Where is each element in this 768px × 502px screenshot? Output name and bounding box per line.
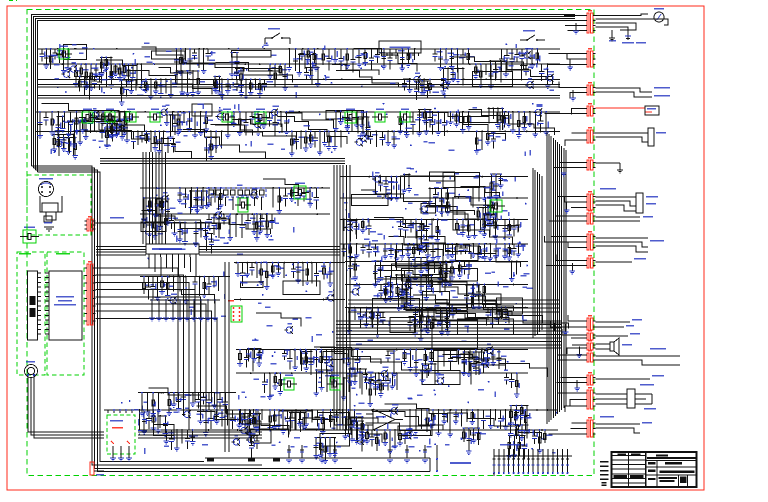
transistor Q23	[374, 176, 380, 182]
wire W13	[254, 79, 256, 90]
transformer secondary wiring	[40, 196, 62, 212]
wire net N97	[166, 276, 187, 278]
wire loop W118	[471, 296, 485, 308]
wire W199	[356, 244, 358, 255]
wire run W191	[148, 388, 200, 402]
bottom label	[450, 462, 471, 464]
wire net N45	[340, 176, 528, 178]
wire loop W283	[392, 264, 447, 278]
capacitor C58	[399, 220, 401, 227]
resistor R336	[324, 438, 326, 461]
resistor R24	[250, 79, 252, 92]
resistor R173	[216, 410, 218, 421]
resistor R121	[462, 220, 464, 233]
wire W217	[429, 188, 431, 201]
wire net N23	[89, 111, 105, 113]
resistor R235	[517, 244, 519, 254]
wire W77	[159, 214, 161, 226]
resistor R109	[259, 214, 261, 231]
wire W211	[425, 276, 427, 298]
resistor R322	[348, 378, 350, 392]
wire loop W278	[390, 318, 414, 333]
wire run W114	[378, 271, 429, 285]
capacitor C61	[426, 220, 428, 227]
transistor Q37	[357, 438, 363, 444]
resistor R317	[161, 198, 163, 211]
resistor R233	[504, 244, 506, 256]
bus bottom run	[32, 166, 263, 465]
resistor R276	[197, 71, 199, 92]
wire net N40	[140, 213, 330, 215]
wire W120	[269, 373, 271, 396]
wire W181	[173, 277, 175, 292]
wire net N141	[78, 75, 101, 77]
wire W202	[437, 244, 439, 257]
resistor R43	[445, 49, 447, 60]
capacitor C49	[241, 214, 243, 225]
capacitor C115	[224, 393, 226, 402]
wire net N165	[143, 197, 163, 199]
wire net N125	[439, 270, 452, 272]
wire net N89	[361, 429, 379, 431]
resistor R195	[455, 410, 457, 421]
connector J12	[587, 258, 589, 268]
wire W153	[394, 430, 396, 446]
capacitor C204	[576, 380, 578, 388]
resistor R250	[421, 230, 423, 246]
board outline dashed frame	[27, 10, 594, 476]
wire run W136	[461, 354, 506, 365]
wire net N104	[234, 299, 345, 301]
capacitor C185	[526, 406, 528, 416]
resistor R9	[110, 64, 112, 85]
capacitor C130	[374, 244, 376, 249]
resistor R77	[305, 131, 307, 148]
capacitor C3	[58, 49, 60, 55]
wire net N58	[348, 307, 380, 309]
resistor R169	[165, 430, 167, 441]
resistor R327	[375, 381, 377, 396]
wire W82	[265, 214, 267, 229]
resistor R261	[310, 54, 312, 75]
connector feed wires	[548, 53, 586, 55]
capacitor C47	[170, 214, 172, 220]
wire W104	[348, 308, 350, 331]
capacitor C6	[207, 49, 209, 54]
wire W231	[447, 68, 449, 82]
resistor R273	[231, 53, 233, 74]
filter K13	[284, 378, 294, 390]
wire W257	[468, 352, 470, 373]
resistor R306	[205, 222, 207, 236]
stray dash top-left	[9, 0, 17, 2]
resistor R204	[203, 277, 205, 295]
resistor R289	[62, 116, 64, 128]
wire W2	[105, 64, 107, 87]
resistor R216	[277, 263, 279, 274]
resistor R255	[447, 312, 449, 332]
transistor Q29	[437, 378, 443, 384]
connector feed wires	[552, 236, 587, 238]
wire W212	[398, 295, 400, 308]
wire loop W36	[473, 71, 513, 86]
resistor R6	[85, 64, 87, 86]
capacitor C148	[427, 81, 429, 88]
capacitor C180	[256, 436, 258, 442]
wire loop W175	[320, 434, 349, 446]
wire W132	[486, 350, 488, 364]
resistor R187	[366, 430, 368, 441]
wire W271	[402, 275, 404, 292]
resistor R67	[194, 112, 196, 135]
capacitor C80	[366, 373, 368, 380]
wire W7	[165, 79, 167, 93]
wire W241	[72, 134, 74, 156]
resistor R112	[309, 188, 311, 204]
key switch S5	[179, 300, 181, 318]
resistor R106	[220, 188, 222, 205]
wire W237	[192, 71, 194, 93]
capacitor C103	[483, 410, 485, 418]
resistor R220	[329, 263, 331, 284]
wire net N72	[342, 349, 359, 351]
resistor R165	[125, 410, 127, 421]
resistor R191	[399, 430, 401, 443]
resistor R234	[508, 244, 510, 257]
connector J16	[587, 353, 589, 362]
wire W147	[244, 410, 246, 429]
wire loop W287	[396, 250, 443, 268]
resistor R341	[356, 421, 358, 443]
wire W16	[417, 79, 419, 92]
resistor R101	[154, 214, 156, 236]
resistor R254	[441, 312, 443, 332]
wire net N92	[449, 409, 485, 411]
resistor R304	[206, 191, 208, 205]
wire net N140	[235, 68, 243, 70]
resistor R60	[124, 112, 126, 131]
antenna box feed stubs	[112, 446, 114, 458]
wire net N188	[408, 316, 433, 318]
resistor R277	[129, 112, 131, 123]
capacitor C129	[368, 244, 370, 250]
wire net N5	[75, 63, 113, 65]
resistor R13	[128, 64, 130, 81]
wire W244	[492, 108, 494, 119]
wire net N150	[57, 115, 65, 117]
resistor R286	[57, 138, 59, 148]
capacitor C70	[452, 308, 454, 312]
wire W83	[272, 188, 274, 208]
connector J18	[587, 390, 589, 409]
capacitor C91	[148, 410, 150, 418]
resistor R292	[501, 108, 503, 130]
wire net N116	[403, 173, 411, 175]
resistor R10	[115, 64, 117, 74]
resistor R162	[516, 373, 518, 394]
wire net N15	[417, 78, 432, 80]
speaker SP1	[596, 343, 611, 345]
capacitor C29	[109, 112, 111, 119]
transistor Q5	[547, 75, 553, 81]
connector J5	[587, 85, 589, 95]
resistor R30	[295, 49, 297, 71]
resistor R129	[389, 285, 391, 299]
wire W221	[311, 67, 313, 84]
resistor R137	[473, 285, 475, 308]
wire loop W76	[84, 119, 113, 131]
resistor R186	[361, 430, 363, 452]
capacitor C73	[245, 350, 247, 358]
capacitor C66	[377, 308, 379, 316]
resistor R31	[307, 49, 309, 60]
capacitor C39	[381, 131, 383, 137]
resistor R50	[531, 49, 533, 65]
wire run W208	[416, 236, 521, 267]
wire W90	[349, 220, 351, 242]
resistor R5	[80, 64, 82, 78]
resistor R353	[521, 406, 523, 416]
up down keys wiring	[596, 423, 641, 425]
capacitor C8	[264, 79, 266, 83]
resistor R361	[425, 317, 427, 330]
display module U-LCD	[49, 271, 82, 340]
resistor R338	[516, 425, 518, 439]
resistor R295	[210, 138, 212, 157]
wire net N144	[118, 111, 132, 113]
connector J15	[587, 343, 589, 350]
wire W270	[396, 275, 398, 285]
resistor R34	[334, 49, 336, 60]
wire net N123	[416, 229, 428, 231]
capacitor C78	[326, 350, 328, 360]
transistor Q21	[346, 224, 352, 230]
resistor R313	[167, 199, 169, 222]
resistor R133	[427, 308, 429, 331]
wire net N187	[344, 416, 364, 418]
wire run W22	[216, 63, 293, 83]
resistor R217	[297, 263, 299, 280]
resistor R172	[205, 410, 207, 433]
capacitor C164	[210, 234, 212, 243]
capacitor C15	[389, 49, 391, 58]
wire W141	[139, 410, 141, 431]
capacitor C74	[264, 373, 266, 382]
wire net N11	[269, 63, 287, 65]
wire W245	[497, 108, 499, 124]
capacitor C158	[58, 134, 60, 144]
capacitor C177	[475, 363, 477, 368]
resistor R15	[145, 79, 147, 89]
resistor R297	[73, 121, 75, 144]
wire run W25	[96, 60, 137, 71]
wire W240	[116, 124, 118, 135]
resistor R231	[484, 244, 486, 257]
wire PW-GND	[95, 222, 230, 224]
resistor R368	[451, 263, 453, 278]
resistor R369	[374, 261, 376, 284]
wire net N90	[384, 429, 407, 431]
capacitor C37	[314, 131, 316, 138]
capacitor C13	[371, 49, 373, 58]
resistor R84	[366, 112, 368, 136]
resistor R243	[491, 174, 493, 198]
wire W261	[290, 413, 292, 432]
wire W50	[340, 131, 342, 147]
wire net N161	[255, 213, 273, 215]
wire run W113	[379, 262, 443, 284]
resistor R207	[152, 393, 154, 414]
title block side notes	[600, 461, 608, 463]
wire W162	[490, 410, 492, 425]
IC U2	[379, 41, 421, 53]
resistor R329	[463, 352, 465, 372]
resistor R93	[487, 131, 489, 142]
meter wiring	[596, 14, 649, 16]
accessory stubs	[596, 321, 631, 323]
capacitor C24	[541, 64, 543, 71]
resistor R88	[437, 112, 439, 132]
wire W214	[472, 187, 474, 208]
capacitor C174	[478, 352, 480, 362]
capacitor C146	[525, 65, 527, 69]
resistor R153	[391, 373, 393, 386]
display wires	[95, 268, 178, 402]
wire W9	[198, 49, 200, 68]
ptt switch wiring	[596, 355, 649, 357]
transistor Q7	[527, 82, 533, 88]
wire loop W73	[192, 104, 212, 116]
wire W163	[495, 410, 497, 421]
resistor R57	[94, 112, 96, 131]
wire loop W198	[241, 282, 263, 287]
wire net N181	[462, 427, 480, 429]
resistor R209	[173, 393, 175, 404]
wire W45	[210, 131, 212, 144]
wire W52	[356, 112, 358, 125]
wire net N24	[108, 111, 126, 113]
capacitor C5	[194, 49, 196, 53]
wire net N194	[427, 262, 453, 264]
wire loop W277	[401, 269, 477, 282]
resistor R96	[518, 112, 520, 135]
wire net N145	[418, 108, 431, 110]
resistor R158	[431, 350, 433, 362]
wire loop W275	[375, 265, 443, 279]
wire W157	[438, 410, 440, 433]
capacitor C38	[369, 131, 371, 136]
resistor R143	[239, 350, 241, 364]
wire net N195	[374, 260, 382, 262]
capacitor C168	[213, 214, 215, 223]
resistor R239	[408, 258, 410, 274]
capacitor C125	[406, 445, 408, 458]
main supply bus loop	[32, 15, 576, 167]
wire W121	[331, 350, 333, 367]
wire net N56	[345, 284, 528, 286]
wire run W196	[256, 313, 301, 326]
resistor R263	[505, 61, 507, 74]
transistor Q17	[162, 196, 168, 202]
transistor Q35	[233, 439, 239, 445]
wire W111	[511, 261, 513, 278]
wire W124	[347, 350, 349, 363]
wire net N133	[403, 78, 411, 80]
resistor R285	[68, 134, 70, 151]
wire W243	[488, 108, 490, 123]
wire W188	[158, 393, 160, 410]
wire W213	[403, 295, 405, 307]
wire W143	[176, 430, 178, 448]
capacitor C172	[387, 351, 389, 355]
filter K6	[222, 112, 232, 122]
resistor R227	[432, 244, 434, 257]
resistor R11	[119, 64, 121, 78]
resistor R167	[143, 410, 145, 431]
wire W150	[295, 410, 297, 430]
connector J-ANT	[90, 462, 94, 475]
filter K5	[150, 112, 160, 122]
capacitor C119	[316, 263, 318, 274]
capacitor C118	[293, 263, 295, 270]
wire run W99	[454, 197, 497, 210]
dc jack wiring	[596, 132, 649, 134]
capacitor C178	[428, 364, 430, 369]
resistor R28	[279, 64, 281, 75]
wire W194	[302, 263, 304, 286]
wire loop W282	[373, 299, 420, 328]
wire W142	[157, 410, 159, 430]
wire run W66	[232, 119, 282, 133]
resistor R251	[483, 214, 485, 234]
wire W149	[261, 410, 263, 420]
wire net N114	[472, 243, 498, 245]
resistor R87	[425, 112, 427, 131]
capacitor C104	[500, 410, 502, 418]
transistor Q27	[386, 286, 392, 292]
transistor Q40	[170, 297, 176, 303]
wire run W290	[413, 295, 499, 324]
wire net N111	[384, 243, 421, 245]
title block signatures	[614, 475, 628, 478]
wire W180	[157, 277, 159, 298]
connector J19	[587, 420, 589, 437]
resistor R274	[236, 53, 238, 73]
resistor R267	[442, 68, 444, 91]
resistor R240	[414, 258, 416, 278]
wire net N163	[173, 221, 187, 223]
resistor R205	[213, 277, 215, 288]
antenna box feed wires	[112, 446, 114, 458]
wire W105	[354, 308, 356, 321]
wire net N70	[283, 349, 318, 351]
transistor Q18	[251, 192, 257, 198]
wire net N35	[425, 111, 470, 113]
wire W224	[135, 80, 137, 91]
antenna switch enclosure	[104, 413, 138, 454]
resistor R107	[229, 214, 231, 237]
wire W266	[351, 421, 353, 439]
resistor R68	[205, 112, 207, 129]
capacitor C12	[352, 49, 354, 60]
capacitor C60	[410, 220, 412, 225]
key switch S3	[165, 300, 167, 318]
wire net N61	[414, 307, 455, 309]
connector J8	[587, 160, 589, 170]
microphone wires	[28, 377, 262, 432]
wire W80	[214, 188, 216, 203]
wire net N68	[239, 349, 261, 351]
